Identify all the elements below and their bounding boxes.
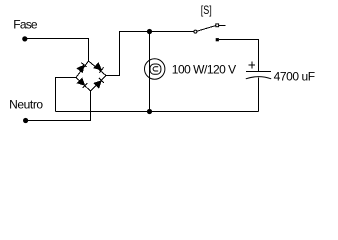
svg-text:4700 uF: 4700 uF bbox=[274, 70, 316, 84]
svg-text:[S]: [S] bbox=[201, 3, 212, 17]
svg-text:100 W/120 V: 100 W/120 V bbox=[172, 63, 236, 77]
svg-text:Neutro: Neutro bbox=[9, 98, 43, 112]
svg-text:Fase: Fase bbox=[13, 18, 38, 32]
